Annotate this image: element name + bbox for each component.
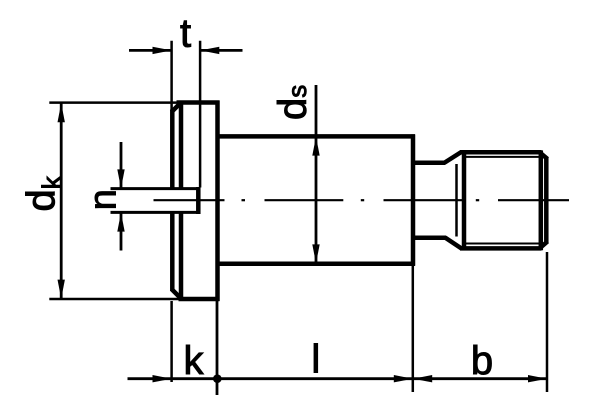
svg-text:n: n (83, 189, 125, 210)
threaded end outline (460, 150, 548, 250)
svg-text:k: k (184, 339, 205, 383)
dimension l arrow right (394, 375, 413, 382)
head bottom-left chamfer (172, 289, 182, 299)
slot top line (111, 187, 199, 190)
slot (drive) profile (111, 187, 199, 214)
thread runout line (455, 164, 458, 237)
dimension b arrow left (413, 375, 432, 382)
head chamfer edge line upper (179, 102, 184, 191)
slot bottom line (111, 211, 199, 214)
head top-left chamfer (172, 102, 182, 112)
dimension dk arrow down (58, 280, 65, 299)
head top edge (177, 100, 220, 105)
dimension t arrow right (200, 47, 219, 54)
thread end face (544, 157, 549, 243)
bottom dimension line (128, 377, 548, 380)
dimension k extension line left (170, 301, 173, 382)
thread end bottom chamfer (540, 241, 548, 248)
neck outline (415, 152, 462, 249)
dimension dk line (60, 104, 63, 299)
svg-text:dk: dk (20, 175, 67, 211)
dimension k extension line right (216, 301, 219, 395)
dimension b arrow right (528, 375, 547, 382)
dimension ds line (315, 85, 318, 264)
thread root line bottom (466, 243, 541, 245)
shank top edge (218, 134, 416, 139)
thread end top chamfer (540, 152, 548, 159)
head left face upper (170, 110, 175, 191)
thread root line top (466, 156, 541, 158)
svg-text:ds: ds (271, 85, 315, 120)
full thread start line (462, 150, 467, 250)
head right face (215, 101, 220, 302)
screw head outline (172, 101, 220, 302)
dimension t line right segment (200, 49, 242, 52)
dimension t arrow left (153, 47, 172, 54)
dimension n arrow line upper (120, 142, 123, 188)
dimension t line left segment (129, 49, 172, 52)
dimension b extension line right (546, 252, 549, 392)
dimension k/l dot (213, 374, 222, 383)
head bottom edge (179, 297, 220, 302)
svg-text:b: b (471, 339, 493, 383)
head chamfer edge line lower (179, 211, 184, 300)
neck bottom edge (415, 235, 446, 240)
neck top edge (415, 161, 445, 166)
dimension n arrow upper (117, 169, 124, 188)
dimension dk arrow up (58, 103, 65, 122)
svg-text:l: l (311, 338, 320, 382)
thread top edge (460, 150, 542, 155)
dimension k arrow (outside left) (153, 375, 172, 382)
thread bottom edge (460, 246, 542, 251)
shank bottom edge (218, 262, 416, 267)
svg-text:t: t (180, 11, 191, 55)
shank (shoulder) outline (218, 134, 416, 265)
neck-to-thread bottom chamfer (445, 238, 462, 249)
thread end chamfer line (539, 150, 544, 250)
dimension t extension line left (170, 41, 173, 111)
dimension n arrow lower (117, 213, 124, 232)
shank right face (411, 134, 416, 265)
neck-to-thread top chamfer (444, 152, 462, 163)
head left face lower (170, 211, 175, 291)
dimension l extension line right (412, 266, 415, 392)
dimension ds arrow down (312, 244, 319, 263)
dimension n arrow line lower (120, 213, 123, 251)
dimension ds arrow up (312, 137, 319, 156)
dimension t extension line right (199, 41, 202, 188)
centerline (154, 199, 570, 201)
slot bottom (depth) line (196, 187, 201, 214)
dimension dk extension line top (49, 101, 177, 104)
dimension dk extension line bottom (49, 298, 180, 301)
